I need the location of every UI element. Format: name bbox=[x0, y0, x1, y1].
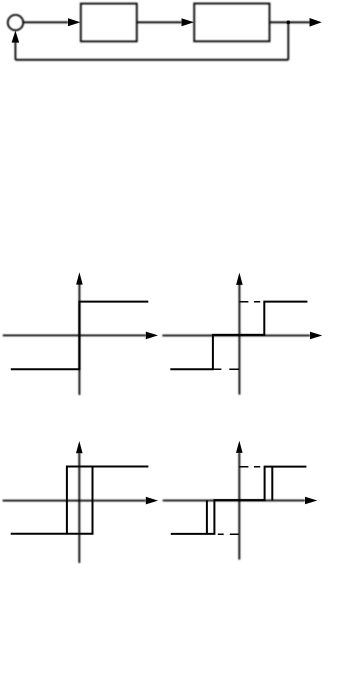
graph3 relay characteristic upper branch bbox=[67, 467, 148, 534]
graph3 relay characteristic lower branch bbox=[11, 467, 93, 534]
graph1 vertical axis arrowhead bbox=[76, 272, 83, 284]
feedback wire horizontal bbox=[15, 59, 288, 61]
graph4 horizontal axis arrowhead bbox=[305, 497, 317, 505]
wire block G1 to block G2 bbox=[137, 21, 182, 23]
graph3 vertical axis arrowhead bbox=[76, 441, 83, 453]
feedback wire rise to summing junction bbox=[14, 42, 16, 60]
graph4 relay inner riser upper bbox=[271, 467, 273, 501]
graph4 relay inner riser lower bbox=[206, 500, 208, 534]
graph3 vertical axis bbox=[78, 453, 80, 563]
feedback arrowhead into summing junction bbox=[12, 31, 20, 43]
graph1 vertical axis bbox=[78, 284, 80, 396]
block G2 bbox=[194, 4, 269, 42]
feedback wire vertical drop bbox=[287, 22, 289, 60]
wire summing junction to block G1 bbox=[23, 21, 68, 23]
graph4 vertical axis bbox=[238, 452, 240, 559]
graph4 upper level dashed indicator bbox=[239, 466, 260, 468]
graph4 lower level dashed indicator bbox=[218, 533, 239, 535]
output wire bbox=[270, 21, 310, 23]
graph2 vertical axis arrowhead bbox=[236, 273, 243, 285]
graph2 vertical axis bbox=[238, 284, 240, 395]
graph1 horizontal axis arrowhead bbox=[146, 332, 158, 340]
block G1 bbox=[81, 4, 137, 42]
graph4 relay characteristic lower branch bbox=[171, 467, 307, 534]
arrowhead into block G2 bbox=[182, 18, 195, 26]
summing junction circle bbox=[8, 15, 23, 30]
graph3 horizontal axis bbox=[3, 500, 146, 502]
graph2 upper level dashed indicator bbox=[239, 301, 260, 303]
graph2 horizontal axis bbox=[162, 335, 310, 337]
graph4 horizontal axis bbox=[163, 500, 305, 502]
graph4 vertical axis arrowhead bbox=[236, 441, 243, 453]
arrowhead into block G1 bbox=[68, 18, 81, 26]
output arrowhead bbox=[310, 18, 322, 27]
graph3 horizontal axis arrowhead bbox=[146, 497, 158, 505]
graph2 relay characteristic bbox=[170, 302, 307, 370]
graph1 horizontal axis bbox=[3, 334, 146, 336]
graph2 horizontal axis arrowhead bbox=[310, 332, 322, 340]
graph1 relay characteristic bbox=[11, 302, 149, 370]
graph2 lower level dashed indicator bbox=[214, 368, 239, 370]
junction node dot bbox=[287, 21, 291, 25]
